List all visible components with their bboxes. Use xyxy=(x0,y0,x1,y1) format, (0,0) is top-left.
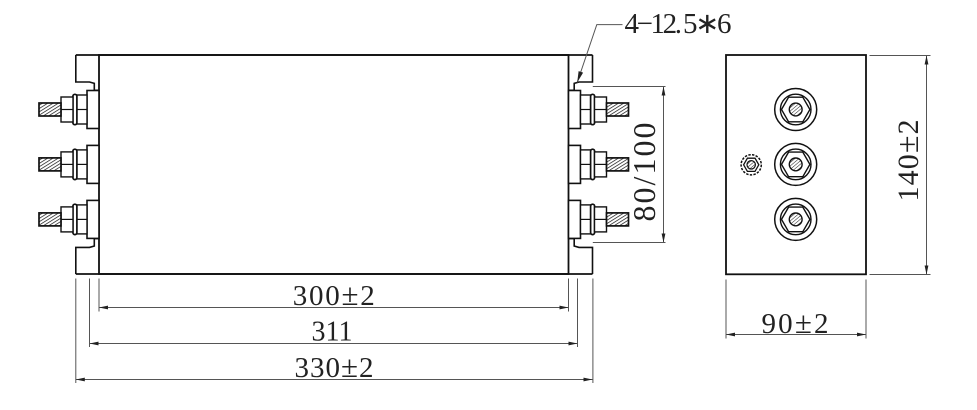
end view outline xyxy=(726,55,866,274)
bottom edge across flanges xyxy=(76,273,593,275)
svg-text:330±2: 330±2 xyxy=(295,349,374,384)
bottom-left mounting flange xyxy=(76,239,99,274)
ground stud xyxy=(741,155,761,175)
left terminal 3 xyxy=(39,200,99,238)
svg-text:300±2: 300±2 xyxy=(293,277,375,312)
right terminal 2 xyxy=(569,145,629,183)
arrows: 80/100 xyxy=(662,87,666,96)
80/100 dim xyxy=(593,86,666,88)
svg-text:311: 311 xyxy=(312,317,353,348)
dim line 300 xyxy=(99,307,569,309)
svg-text:80/100: 80/100 xyxy=(626,123,662,222)
dim line 330 xyxy=(76,379,593,381)
svg-text:4−12. 5∗6: 4−12. 5∗6 xyxy=(625,8,732,40)
arrows 140 xyxy=(925,56,929,65)
extension lines bottom left xyxy=(75,279,77,384)
top-left mounting flange xyxy=(76,55,99,90)
leader line for 4-12.5*6 xyxy=(577,25,622,83)
arrows 90 xyxy=(726,333,735,337)
svg-text:90±2: 90±2 xyxy=(762,305,829,340)
bottom-right mounting flange xyxy=(569,239,593,274)
arrows: 300 xyxy=(99,306,108,310)
dims of end view xyxy=(726,56,931,339)
end terminal 1 xyxy=(775,89,817,131)
90 dim xyxy=(725,280,727,339)
end terminal 3 xyxy=(775,198,817,240)
end terminal 2 xyxy=(775,143,817,185)
body outline xyxy=(99,55,569,274)
leader arrow xyxy=(575,71,583,83)
left terminal 2 xyxy=(39,145,99,183)
extension lines bottom right xyxy=(568,279,570,312)
dim line 311 xyxy=(90,343,578,345)
svg-text:140±2: 140±2 xyxy=(889,120,925,202)
right terminal 1 xyxy=(569,91,629,129)
arrows: 330 xyxy=(76,378,85,382)
140 dim xyxy=(870,55,931,57)
arrows: 311 xyxy=(90,342,99,346)
right terminal 3 xyxy=(569,200,629,238)
top-right mounting flange (with slot) xyxy=(569,55,593,90)
left terminal 1 xyxy=(39,91,99,129)
top edge across flanges xyxy=(76,54,593,56)
